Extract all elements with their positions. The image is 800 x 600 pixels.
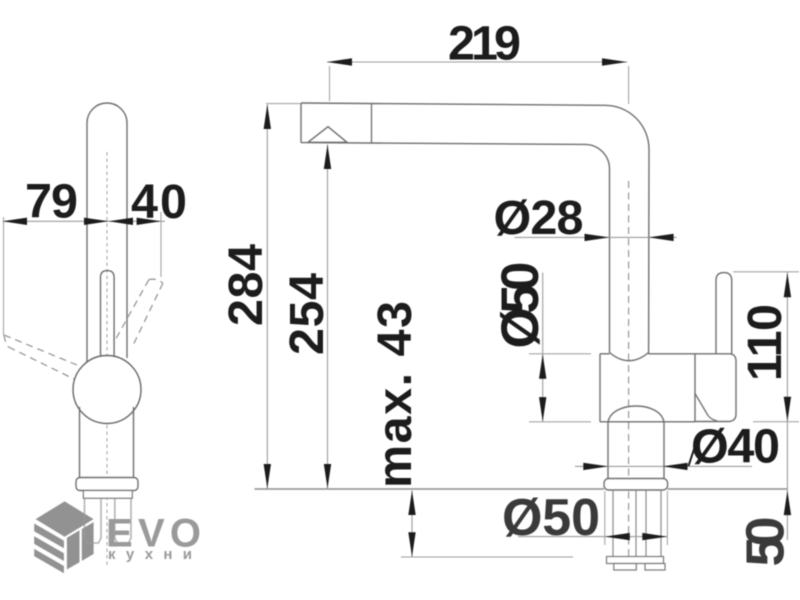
dimension 40: [109, 175, 187, 229]
logo cube left face stripe 3: [34, 549, 64, 573]
countertop line left part: [255, 488, 605, 490]
dimension diameter 28: [494, 191, 677, 245]
base flange front view: [76, 478, 138, 491]
neck dome: [608, 406, 664, 479]
handle lever vertical front view: [101, 271, 115, 356]
svg-text:50: 50: [736, 517, 796, 567]
shank collar: [607, 557, 664, 564]
mixer ball joint: [73, 356, 141, 424]
logo text EVO: [106, 512, 201, 556]
handle range dashed right position: [115, 279, 163, 344]
svg-text:Ø50: Ø50: [491, 262, 550, 349]
handle range dashed left position: [4, 335, 77, 379]
spout pipe side view: [301, 103, 649, 354]
dimension 254: [280, 145, 334, 489]
logo cube right face panel A: [67, 530, 80, 569]
stud tip left side view: [614, 564, 637, 571]
dimension diameter 40: [575, 420, 780, 474]
aerator outlet cone: [308, 127, 347, 143]
svg-text:219: 219: [448, 17, 521, 71]
dimension 79: [3, 175, 109, 229]
lever seam diagonal: [695, 394, 717, 421]
saddle arc at tube/body joint: [610, 353, 649, 361]
extension line right of 40: [160, 212, 162, 277]
svg-text:Ø50: Ø50: [502, 489, 600, 547]
shank thread lines side view: [613, 490, 661, 557]
svg-text:110: 110: [738, 304, 792, 381]
svg-text:Ø40: Ø40: [691, 420, 780, 474]
spout tube front view: [87, 103, 127, 362]
logo cube top face: [36, 501, 94, 536]
svg-text:254: 254: [280, 273, 334, 355]
threaded stud right front view: [115, 498, 131, 543]
handle housing side view: [695, 354, 736, 422]
logo cube right face panel B: [82, 522, 94, 561]
threaded stud left front view: [85, 498, 102, 543]
stud tip right side view: [645, 564, 665, 571]
dimension diameter 50 base: [502, 489, 668, 547]
svg-text:кухни: кухни: [108, 546, 198, 563]
tube axis dashed side view: [628, 181, 630, 570]
dimension 50 base height: [736, 491, 796, 567]
svg-text:79: 79: [25, 175, 78, 229]
dimension 219: [327, 17, 627, 71]
extension line spout top left: [266, 103, 300, 105]
dimension 110: [733, 272, 799, 540]
logo text kitchens: [108, 546, 198, 563]
dimension diameter 50 body: [491, 262, 591, 422]
logo cube left face stripe 2: [34, 536, 64, 561]
extension line 219 left: [329, 66, 331, 101]
dimension 284: [219, 105, 273, 489]
aerator separator line: [371, 104, 373, 143]
svg-text:Ø28: Ø28: [494, 191, 584, 245]
svg-text:284: 284: [219, 244, 273, 326]
body cylinder front view: [80, 407, 134, 478]
logo cube left face stripe 1: [34, 524, 64, 549]
body block side view: [600, 354, 729, 422]
center axis front view: [106, 152, 108, 566]
extension line 219 right: [628, 66, 630, 104]
extension line left of 79: [3, 217, 5, 335]
lever rod side view: [716, 273, 732, 354]
base flange side view: [604, 479, 668, 491]
countertop line right part: [668, 488, 788, 490]
dimension max 43: [368, 301, 573, 557]
base step front view: [83, 491, 132, 499]
